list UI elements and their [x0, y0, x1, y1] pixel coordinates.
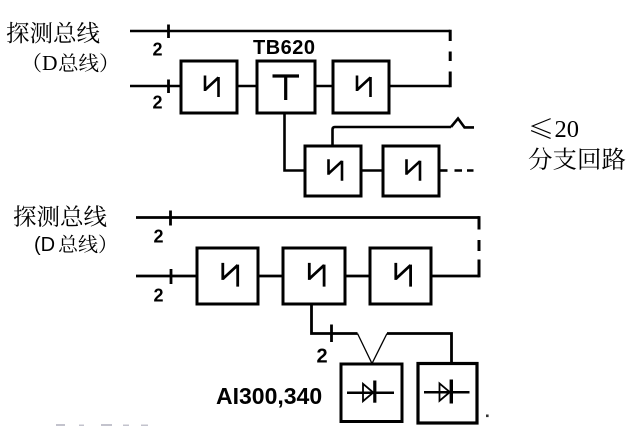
- tick on bus 2: [169, 211, 172, 226]
- dashes branch continues: [455, 169, 474, 172]
- wire U2-U3: [315, 85, 333, 88]
- break symbol: [451, 119, 474, 128]
- wire: detector bus 2 lower conductor: [136, 275, 197, 278]
- wire U7-U8: [345, 275, 370, 278]
- svg-text:2: 2: [153, 40, 163, 60]
- diode symbol in DET1: [347, 391, 394, 394]
- break V to detector 1: [358, 334, 388, 364]
- wire branch continuation stub: [439, 169, 448, 172]
- symbol И in U7: [309, 263, 324, 287]
- symbol И in U3: [357, 76, 371, 98]
- tick on lower conductor: [170, 269, 173, 284]
- symbol И in U8: [396, 263, 411, 287]
- svg-text:D: D: [42, 51, 58, 75]
- wire U1-U2: [237, 85, 257, 88]
- svg-text:20: 20: [555, 116, 580, 143]
- module U3 isolator box: [333, 61, 389, 113]
- cut-off text fragments bottom edge: [56, 424, 148, 426]
- wire U8 to return riser: [431, 275, 479, 278]
- label detection bus 2: [14, 205, 36, 227]
- svg-text:(D: (D: [34, 234, 55, 256]
- module U5 branch isolator: [383, 146, 439, 196]
- module U2 TB620 tee box: [257, 61, 315, 113]
- dashed return riser bus 2: [478, 216, 481, 277]
- wire: detector bus 2 top conductor: [136, 216, 479, 219]
- svg-text:2: 2: [153, 93, 163, 113]
- module U4 branch isolator: [305, 146, 361, 196]
- label branch circuits: [529, 147, 552, 170]
- svg-text:TB620: TB620: [253, 37, 316, 59]
- module U6 isolator: [197, 248, 258, 304]
- symbol И in U5: [407, 159, 421, 181]
- stray period: [486, 415, 489, 418]
- module U8 isolator: [370, 248, 431, 304]
- wire U4-U5: [361, 169, 383, 172]
- wire U3 to return riser: [389, 85, 450, 88]
- symbol И in U4: [329, 159, 343, 181]
- label max 20: [531, 118, 551, 139]
- wire U6-U7: [258, 275, 283, 278]
- wire U2 drop to branch: [285, 113, 306, 171]
- module U1 isolator box: [181, 61, 237, 113]
- symbol И in U6: [223, 263, 238, 287]
- symbol T in U2: [273, 76, 300, 100]
- label detection bus 1: [7, 22, 29, 44]
- wire U7 drop to detectors: [312, 304, 358, 334]
- module U7 isolator: [283, 248, 345, 304]
- svg-text:2: 2: [317, 346, 328, 368]
- detector DET2 box: [418, 364, 477, 424]
- svg-text:2: 2: [154, 286, 164, 306]
- detector DET1 box: [341, 364, 402, 422]
- tick: 2-wire slash on lower conductor: [167, 80, 170, 94]
- diode symbol in DET2: [424, 391, 470, 394]
- wire branch feed with break: [333, 127, 452, 146]
- label D bus 1: [35, 53, 41, 73]
- wire: detector bus 1 lower conductor: [130, 85, 181, 88]
- symbol И in U1: [205, 76, 219, 98]
- svg-text:2: 2: [154, 227, 164, 247]
- wire: detector bus 1 top conductor: [130, 30, 450, 33]
- wire detector feed to detector 2: [387, 334, 452, 364]
- label D bus 2: [59, 235, 77, 253]
- svg-text:AI300,340: AI300,340: [216, 383, 322, 409]
- dashed return riser bus 1: [449, 30, 452, 88]
- tick on detector feed: [330, 325, 333, 343]
- tick: 2-wire slash on bus 1: [167, 25, 170, 39]
